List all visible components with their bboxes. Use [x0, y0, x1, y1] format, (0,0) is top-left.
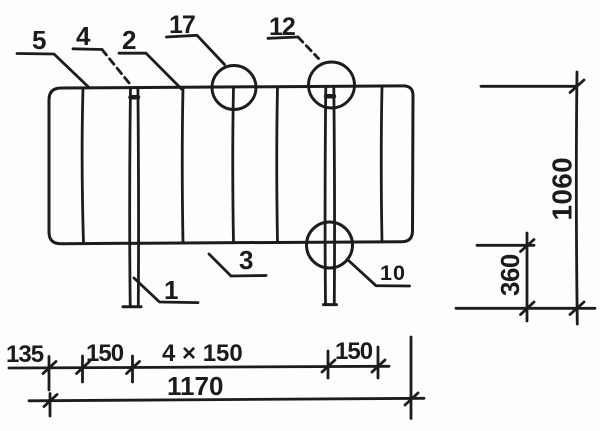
dim text 135 [6, 341, 44, 368]
svg-text:360: 360 [495, 254, 525, 296]
dim text 150 (first) [86, 340, 124, 367]
label 17 text [169, 11, 195, 39]
stake 2 [324, 87, 337, 305]
row 1 tick at x132 [127, 356, 140, 382]
svg-text:1060: 1060 [547, 157, 578, 221]
bottom dimension row 1 line [9, 366, 389, 368]
dim text 4x150 [162, 340, 243, 367]
dim text 1060 (rotated) [547, 157, 578, 221]
svg-text:2: 2 [122, 25, 136, 55]
row 2 right end vertical [405, 337, 418, 419]
label 1 leader [134, 278, 198, 303]
svg-text:4: 4 [76, 21, 91, 51]
panel divider line 3 [231, 87, 235, 243]
dim text 360 (rotated) [495, 254, 525, 296]
row 1 tick at x49 [43, 357, 56, 391]
row 2 tick at x50 [44, 394, 57, 417]
dim text 1170 [167, 371, 223, 401]
svg-text:150: 150 [86, 340, 124, 367]
shared bottom extension line [456, 307, 595, 310]
label 2 text [122, 25, 136, 55]
label 12 text [269, 13, 295, 41]
bottom dimension row 2 line [29, 398, 424, 401]
label 3 text [239, 245, 253, 275]
panel divider line 1 [82, 88, 83, 244]
dimension 360 vertical line [526, 233, 529, 321]
callout circle 12 [309, 62, 355, 108]
panel divider line 4 [275, 87, 279, 243]
dimension 360 top tick [521, 240, 535, 252]
svg-text:5: 5 [32, 25, 46, 55]
label 3 leader [209, 254, 266, 276]
panel divider line 2 [181, 87, 185, 243]
svg-text:1170: 1170 [167, 371, 223, 401]
label 5 leader [17, 54, 90, 89]
svg-text:17: 17 [169, 11, 195, 39]
svg-text:12: 12 [269, 13, 295, 41]
label 1 text [164, 275, 178, 305]
label 2 leader [119, 53, 182, 89]
row 1 tick at x378 [372, 347, 385, 378]
label 5 text [32, 25, 46, 55]
label 17 leader [167, 35, 225, 64]
panel divider line 5 [380, 86, 384, 242]
panel outline [49, 86, 413, 244]
dimension 1060 bottom tick [570, 302, 584, 315]
row 1 tick at x328 [322, 351, 335, 378]
svg-text:1: 1 [164, 275, 178, 305]
row 1 tick at x82 [77, 356, 90, 382]
dimension 1060 top extension line [481, 85, 577, 88]
label 10 leader [348, 260, 410, 286]
svg-text:3: 3 [239, 245, 253, 275]
svg-text:135: 135 [6, 341, 44, 368]
label 4 leader (dashed) [73, 49, 130, 84]
stake 1 [123, 88, 141, 307]
dimension 360 top extension line [477, 244, 534, 247]
label 4 text [76, 21, 91, 51]
dimension 1060 vertical line [575, 72, 579, 324]
dimension 1060 top tick [570, 80, 584, 93]
callout circle 17 [212, 66, 256, 110]
dimension 360 bottom tick [521, 302, 535, 315]
svg-text:4 × 150: 4 × 150 [162, 340, 243, 367]
label 10 text [380, 261, 406, 285]
callout circle 10 [307, 222, 353, 268]
svg-text:150: 150 [335, 338, 373, 365]
label 12 leader (dashed) [268, 37, 319, 59]
svg-text:10: 10 [380, 261, 406, 285]
dim text 150 (second) [335, 338, 373, 365]
